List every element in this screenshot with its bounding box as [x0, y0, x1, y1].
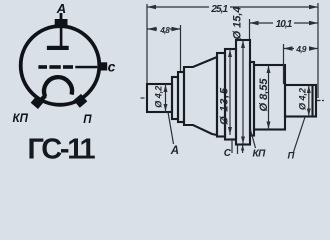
- svg-text:А: А: [170, 145, 179, 157]
- arrow 4,9 right: [309, 46, 318, 50]
- arrow dia4,2L down: [164, 104, 168, 112]
- svg-text:КП: КП: [13, 113, 29, 125]
- leader A: [168, 112, 174, 144]
- leader C: [231, 140, 233, 154]
- arrow dia13,5 up: [228, 50, 232, 58]
- svg-text:КП: КП: [253, 149, 267, 160]
- lead A (left pin): [147, 84, 172, 112]
- arrow 25,1 right: [309, 5, 318, 9]
- pin tab P: [73, 94, 87, 108]
- svg-text:4,9: 4,9: [295, 44, 306, 54]
- lead end face line: [311, 85, 313, 117]
- leader KP: [251, 130, 256, 148]
- extension line ring2: [180, 25, 182, 71]
- centerline lead A: [141, 97, 147, 99]
- centerline lead P right: [317, 100, 325, 102]
- extension line lead R left: [283, 44, 285, 84]
- svg-text:Ø 13,5: Ø 13,5: [218, 87, 230, 125]
- flange disc: [236, 40, 250, 145]
- svg-text:Ø 15,4: Ø 15,4: [231, 6, 243, 39]
- cathode arc: [44, 77, 72, 96]
- dia dim line 8,55: [268, 65, 270, 130]
- cylinder 8.55: [254, 65, 285, 130]
- svg-text:Ø 8,55: Ø 8,55: [258, 78, 270, 112]
- dim line 4,9: [284, 48, 319, 50]
- ring 4: [225, 49, 236, 140]
- arrow 10,1 left: [250, 21, 259, 25]
- anode top cap: [55, 19, 68, 26]
- dim line 4,8: [147, 28, 181, 30]
- cylinder + cone body: [184, 57, 217, 135]
- grid lead wire: [75, 66, 97, 69]
- dim line 10,1: [250, 22, 319, 24]
- svg-text:С: С: [224, 148, 232, 159]
- arrow 15,4 below-disc up: [241, 145, 244, 151]
- svg-text:4,8: 4,8: [159, 26, 170, 35]
- dia dim line 15,4: [242, 41, 244, 154]
- arrow 4,8 left: [148, 27, 157, 31]
- dimension texts: [153, 4, 307, 161]
- svg-text:П: П: [83, 114, 92, 126]
- arrow dia4,2L up: [164, 85, 168, 93]
- arrow dia15,4 down: [241, 137, 245, 144]
- envelope circle: [21, 26, 100, 105]
- svg-text:Ø 4,2: Ø 4,2: [153, 86, 163, 108]
- leader P: [294, 117, 306, 152]
- arrow 25,1 left: [147, 5, 156, 9]
- anode plate stem: [60, 25, 63, 46]
- grid dash 1: [38, 65, 47, 69]
- arrowheads: [147, 5, 318, 151]
- svg-text:10,1: 10,1: [276, 19, 293, 30]
- thin dimension work: [141, 3, 325, 154]
- dim line 25,1: [147, 6, 318, 8]
- extension line left end: [146, 4, 148, 83]
- dia dim line 13,5: [229, 49, 231, 135]
- arrow dia8,55 down: [267, 122, 271, 130]
- grid side tab: [100, 62, 107, 70]
- ring 1: [172, 77, 178, 119]
- svg-text:Ø 4,2: Ø 4,2: [298, 88, 308, 110]
- grid dash 2: [49, 65, 60, 69]
- anode stub to label: [60, 13, 63, 20]
- svg-text:А: А: [56, 1, 66, 16]
- pin tab KP: [31, 95, 45, 109]
- step ring: [250, 62, 254, 136]
- lead P (right pin): [285, 85, 316, 117]
- svg-text:с: с: [108, 58, 116, 74]
- extension line disc right: [249, 19, 251, 39]
- arrow dia15,4 up: [241, 41, 245, 49]
- dia dim line 4,2 left: [165, 84, 167, 112]
- ring 3: [217, 53, 225, 137]
- disc edge stray line: [237, 145, 239, 154]
- ring 2: [178, 72, 184, 122]
- svg-text:П: П: [288, 150, 295, 161]
- svg-text:25,1: 25,1: [210, 4, 228, 15]
- anode plate: [47, 46, 69, 50]
- arrow dia4,2R down: [307, 109, 311, 117]
- arrow dia8,55 up: [267, 66, 271, 74]
- cathode stub to KP pin: [38, 96, 46, 104]
- svg-text:ГС-11: ГС-11: [27, 133, 95, 163]
- arrow 4,8 right: [172, 27, 181, 31]
- dia dim line 4,2 right: [308, 85, 310, 117]
- arrow 4,9 left: [284, 46, 293, 50]
- extension line right end: [317, 3, 319, 98]
- arrow dia13,5 down: [228, 127, 232, 135]
- arrow dia4,2R up: [307, 86, 311, 94]
- grid dash 3: [63, 65, 73, 69]
- arrow 10,1 right: [309, 21, 318, 25]
